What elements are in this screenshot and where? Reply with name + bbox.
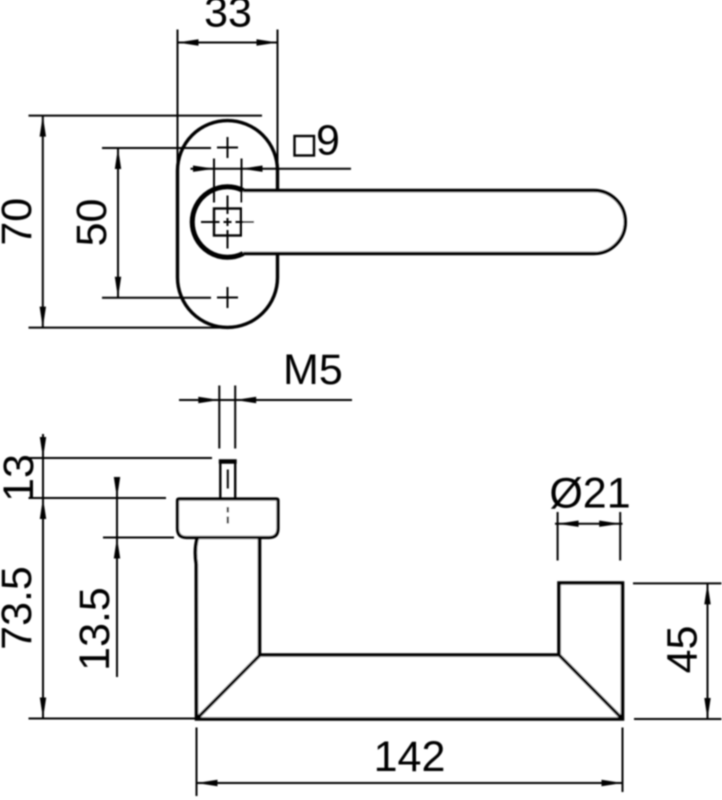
dimension 73.5	[0, 566, 195, 718]
dimension 33	[178, 0, 278, 169]
dimension 45	[633, 583, 722, 719]
top screw hole cross	[217, 137, 238, 158]
svg-text:73.5: 73.5	[0, 566, 41, 650]
bottom screw hole cross	[217, 287, 238, 308]
handle outline (side view)	[195, 538, 622, 720]
dimension 13	[0, 434, 212, 719]
svg-text:Ø21: Ø21	[549, 470, 630, 518]
svg-text:9: 9	[316, 117, 340, 165]
dimension 142	[197, 728, 623, 797]
svg-text:33: 33	[204, 0, 252, 37]
dimension M5	[179, 346, 352, 449]
svg-text:13: 13	[0, 454, 43, 502]
dimension 13.5	[71, 477, 174, 677]
spindle centerlines (dash-dot)	[201, 196, 254, 249]
dimension square 9	[191, 117, 352, 203]
bearing rosette (side view)	[178, 499, 279, 538]
dimension diameter 21	[549, 470, 630, 561]
svg-text:M5: M5	[283, 346, 343, 394]
rosette oval escutcheon (top view)	[178, 121, 278, 328]
right miter line	[560, 656, 622, 719]
dimension 70	[0, 116, 262, 328]
svg-text:13.5: 13.5	[71, 587, 119, 671]
svg-text:142: 142	[374, 733, 446, 781]
lever handle bar (top view)	[243, 191, 625, 254]
svg-text:45: 45	[659, 626, 707, 674]
dimension 50	[68, 148, 211, 298]
handle neck circle arc (top view)	[192, 187, 243, 257]
square spindle hole 9mm	[214, 209, 241, 236]
left miter line	[198, 656, 260, 719]
centerline through screw (dash-dot)	[227, 470, 229, 524]
svg-text:70: 70	[0, 198, 41, 246]
M5 screw spindle (side view)	[219, 462, 237, 500]
svg-text:50: 50	[68, 199, 116, 247]
